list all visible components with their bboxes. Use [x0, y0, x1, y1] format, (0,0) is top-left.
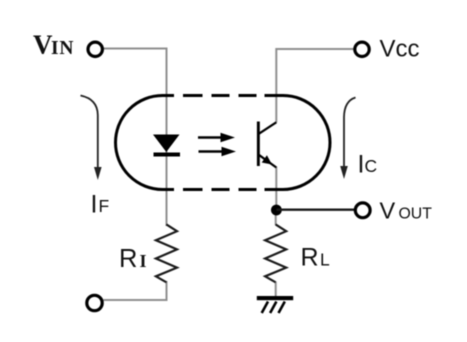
- light arrow upper: [198, 136, 222, 138]
- ground bar: [257, 296, 293, 300]
- optocoupler body: left cap (solid): [116, 96, 175, 190]
- terminal VIN: [88, 42, 102, 56]
- resistor RL: [265, 224, 286, 282]
- svg-text:I: I: [140, 251, 147, 271]
- svg-text:F: F: [99, 196, 110, 216]
- LED (emitter diode) triangle: [153, 135, 180, 153]
- wire phototransistor emitter down to output node: [275, 167, 277, 213]
- current arrow IC: [344, 98, 356, 167]
- svg-text:Vcc: Vcc: [380, 36, 420, 63]
- node: output junction dot: [271, 205, 282, 216]
- svg-text:R: R: [301, 244, 319, 272]
- ground slashes: [262, 302, 285, 314]
- resistor RI: [156, 224, 177, 282]
- phototransistor collector lead: [259, 122, 277, 134]
- svg-text:V: V: [33, 30, 53, 60]
- svg-text:R: R: [119, 245, 137, 273]
- svg-text:OUT: OUT: [399, 206, 433, 223]
- svg-text:L: L: [320, 250, 330, 270]
- wire output node to RL top and RL bottom to ground: [275, 212, 277, 297]
- terminal return (bottom left): [87, 295, 102, 310]
- wire node to VOUT terminal: [276, 208, 354, 210]
- phototransistor emitter lead: [259, 155, 277, 168]
- phototransistor emitter arrow: [262, 155, 272, 164]
- optocoupler body: right cap (solid): [265, 96, 331, 190]
- svg-text:IN: IN: [51, 38, 74, 59]
- current arrow IF: [81, 96, 98, 169]
- wire VCC terminal to phototransistor collector: [276, 49, 353, 123]
- wire VIN terminal to LED anode (horizontal then vertical down to RI top): [104, 49, 167, 227]
- svg-text:C: C: [365, 156, 378, 176]
- phototransistor base bar: [257, 122, 260, 167]
- terminal VOUT: [355, 203, 370, 218]
- terminal VCC: [355, 42, 369, 56]
- svg-text:I: I: [91, 190, 98, 218]
- svg-text:V: V: [380, 198, 396, 224]
- optocoupler body: dashed top edge: [183, 94, 257, 97]
- svg-text:I: I: [358, 150, 365, 178]
- optocoupler body: dashed bottom edge: [183, 188, 257, 191]
- light arrow lower: [199, 150, 224, 152]
- LED cathode bar: [154, 153, 181, 157]
- wire return: bottom-left terminal to RI bottom: [104, 281, 167, 300]
